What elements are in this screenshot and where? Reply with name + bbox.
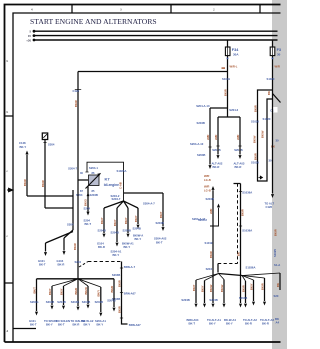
wire bus to fuse F35 (272, 40, 274, 47)
fan B diagonal to x196 (196, 274, 219, 281)
bus line 50 dot (33, 39, 36, 42)
svg-text:S204: S204 (84, 218, 91, 222)
svg-text:C126: C126 (266, 205, 273, 209)
wire horizontal y208 (45, 207, 73, 209)
svg-text:S1036A: S1036A (242, 190, 252, 194)
svg-text:30: 30 (276, 138, 280, 142)
svg-text:BK: BK (276, 283, 280, 287)
branch wire x64 (63, 238, 65, 251)
svg-text:S204-A-10: S204-A-10 (190, 142, 204, 146)
relay K7 body (89, 175, 100, 186)
fan B diagonal to page edge (242, 273, 280, 276)
fan diagonal 4 (124, 201, 139, 208)
svg-text:LG-B: LG-B (204, 178, 211, 182)
fan diagonal 2 (117, 201, 124, 208)
svg-text:S204-A1: S204-A1 (111, 249, 122, 253)
top border zone divider 3 (259, 5, 261, 14)
svg-text:BK/Y: BK/Y (249, 283, 253, 290)
svg-text:W/R: W/R (236, 135, 240, 140)
svg-text:BK/R: BK/R (74, 288, 78, 295)
svg-text:S204B: S204B (90, 193, 98, 197)
svg-text:BK-T: BK-T (85, 222, 92, 226)
wire main vertical x78 (77, 72, 79, 280)
svg-text:S204: S204 (48, 143, 55, 147)
svg-text:BK/Y: BK/Y (59, 288, 63, 295)
svg-text:BK: BK (236, 252, 240, 256)
svg-text:S204B: S204B (82, 300, 90, 304)
fan B diagonal to x245.5 (242, 276, 246, 282)
svg-text:BK/O: BK/O (83, 198, 87, 206)
svg-text:BK/W: BK/W (84, 287, 88, 295)
svg-text:TO SOLEN: TO SOLEN (56, 319, 70, 323)
svg-text:BK-Y: BK-Y (20, 145, 27, 149)
svg-text:START ENGINE AND ALTERNATORS: START ENGINE AND ALTERNATORS (30, 17, 157, 26)
bus line 15 (34, 35, 278, 37)
svg-text:S1020: S1020 (263, 117, 271, 121)
svg-text:BK/R: BK/R (73, 243, 77, 250)
bus A drop x36.5 (36, 279, 38, 311)
dashed wire horizontal (88, 261, 122, 263)
svg-text:BK/Y: BK/Y (124, 217, 128, 224)
svg-text:ALT-A02: ALT-A02 (212, 161, 223, 165)
bus line 15 dot (33, 34, 36, 37)
dashed wire x237.5 (237, 184, 239, 264)
bus line 50 (34, 39, 278, 41)
wire main horizontal y71.5 (78, 71, 228, 73)
svg-text:BK/R: BK/R (253, 153, 257, 160)
bus A drop x52 (51, 286, 53, 305)
wire bus to fuse F34 (227, 40, 229, 47)
svg-text:S204B: S204B (46, 300, 54, 304)
bus line 30 dot (33, 30, 36, 33)
margin entry arrow (7, 188, 13, 192)
svg-text:W/R: W/R (275, 65, 280, 69)
svg-text:BK-Y: BK-Y (226, 322, 233, 326)
fan A diagonal 2 (64, 279, 79, 286)
svg-text:S204G: S204G (30, 300, 39, 304)
svg-text:BK-W-A2: BK-W-A2 (82, 319, 94, 323)
left border zone divider 2 (5, 282, 14, 284)
arrow left drop (217, 146, 219, 155)
svg-text:BK-Y: BK-Y (84, 323, 91, 327)
svg-text:S204B: S204B (212, 148, 220, 152)
svg-text:S204B: S204B (206, 197, 214, 201)
svg-text:S204-A-7: S204-A-7 (143, 202, 155, 206)
splice node A to node B (219, 274, 243, 276)
svg-text:30A: 30A (233, 52, 239, 56)
svg-text:S204-7: S204-7 (68, 166, 77, 170)
branch wire x45b (45, 243, 47, 252)
fan B diagonal to x204.5 (205, 274, 219, 281)
splice bus A (37, 278, 115, 280)
svg-text:BK/T: BK/T (32, 287, 36, 294)
fan A diagonal 3 (78, 279, 88, 286)
svg-text:BK-T: BK-T (30, 323, 37, 327)
svg-text:BK/W-A1: BK/W-A1 (122, 241, 134, 245)
svg-text:F34: F34 (232, 48, 239, 52)
wire fuse F34 down (227, 56, 229, 117)
svg-text:BK/R: BK/R (117, 280, 121, 287)
svg-text:G101: G101 (38, 259, 45, 263)
svg-text:W/R: W/R (204, 174, 209, 178)
arrow x210 end (208, 165, 211, 169)
svg-text:BK-R: BK-R (58, 263, 65, 267)
inner drawing border (13, 13, 281, 342)
wire x240.5 to node B (240, 184, 242, 276)
svg-text:15: 15 (28, 34, 32, 38)
fan B diagonal to x224 (219, 274, 225, 280)
svg-text:S204B: S204B (197, 121, 205, 125)
svg-text:BK-Y: BK-Y (209, 322, 216, 326)
svg-text:BK/W: BK/W (209, 284, 213, 292)
svg-text:BK-R: BK-R (73, 323, 80, 327)
svg-text:S204: S204 (76, 193, 83, 197)
svg-text:BK/T: BK/T (159, 211, 163, 218)
bus A drop x78 (77, 279, 79, 306)
fan wire x117 (116, 208, 118, 242)
wire x121.5 down (122, 262, 128, 325)
svg-text:K7: K7 (105, 177, 111, 182)
svg-text:BK/Y: BK/Y (200, 285, 204, 292)
svg-text:BK/R: BK/R (260, 283, 264, 290)
svg-text:BK/R: BK/R (253, 105, 257, 112)
svg-text:BK/R: BK/R (41, 180, 45, 187)
svg-text:BK-T: BK-T (189, 322, 196, 326)
svg-text:30: 30 (277, 52, 281, 56)
top border zone divider 2 (170, 5, 172, 14)
svg-text:BK/R: BK/R (274, 229, 278, 236)
wire relay box top (87, 162, 124, 201)
svg-text:BK/Y: BK/Y (48, 288, 52, 295)
bus B drop x196 (195, 280, 197, 303)
branch diagonal to x64 (64, 230, 73, 238)
svg-text:+30: +30 (26, 38, 31, 42)
svg-text:BK/R: BK/R (240, 209, 244, 216)
svg-text:BK-Y: BK-Y (113, 253, 120, 257)
fan A diagonal 1 (52, 279, 78, 286)
bus A drop x114 (113, 279, 115, 307)
top border zone divider 1 (71, 5, 73, 14)
fan B diagonal to x264.5 (242, 276, 265, 279)
wire fuse F35 down (272, 56, 274, 194)
svg-text:A4: A4 (276, 321, 280, 325)
svg-text:S204-A-10: S204-A-10 (196, 104, 210, 108)
bus B drop x280 cut (279, 273, 281, 290)
bus A drop x88 (87, 286, 89, 304)
svg-text:S204-A02: S204-A02 (154, 237, 167, 241)
svg-text:S204: S204 (67, 223, 74, 227)
svg-text:S204B: S204B (95, 300, 103, 304)
svg-text:S204: S204 (84, 206, 91, 210)
svg-text:BK-T: BK-T (58, 323, 65, 327)
svg-text:C-AB: C-AB (118, 182, 122, 189)
node below fuse F35 (272, 58, 274, 60)
arrow up x27 (25, 151, 28, 155)
wire x163 down (162, 193, 164, 227)
arrow right drop (239, 146, 241, 155)
fan diagonal 3 (124, 201, 129, 208)
wire drop x240 (239, 117, 241, 146)
svg-text:BK/T: BK/T (192, 284, 196, 291)
fan wire x138 (137, 208, 139, 224)
svg-text:S204B: S204B (112, 273, 120, 277)
wire drop x218 (217, 117, 219, 146)
wire x218 to node A (217, 264, 219, 273)
arrow up L-wire (217, 204, 220, 208)
svg-text:S1036: S1036 (251, 120, 259, 124)
bus A drop x100.8 (100, 287, 102, 312)
svg-text:S1025: S1025 (273, 249, 277, 257)
svg-text:BK/Y: BK/Y (100, 217, 104, 224)
bus B drop x253.5 (253, 280, 255, 301)
bus B drop x224 (223, 280, 225, 304)
svg-text:S204B: S204B (181, 298, 189, 302)
svg-text:S204B: S204B (197, 153, 205, 157)
fuse F34 (225, 47, 230, 56)
svg-text:W/R: W/R (209, 209, 213, 214)
wire T header y117 (218, 116, 240, 118)
svg-text:BK/Y: BK/Y (134, 215, 138, 222)
svg-text:BK-R: BK-R (98, 245, 105, 249)
svg-text:S204B: S204B (156, 221, 164, 225)
svg-text:S204-2: S204-2 (198, 218, 207, 222)
wire junction horizontal at y108 (210, 107, 228, 109)
dashed corner to x218 (218, 263, 238, 265)
svg-text:BRN-A07: BRN-A07 (129, 323, 141, 327)
svg-text:S204B: S204B (209, 298, 217, 302)
svg-text:30: 30 (269, 158, 273, 162)
bundle header y183.5 (234, 183, 241, 185)
svg-text:G104: G104 (97, 241, 104, 245)
svg-text:S204B: S204B (111, 231, 119, 235)
diagonal branch to page edge (273, 94, 281, 103)
svg-text:BK/Y: BK/Y (113, 219, 117, 226)
svg-text:F3: F3 (277, 48, 281, 52)
arrow up on coil wire (87, 193, 90, 197)
relay K7 switch blade (86, 173, 101, 188)
svg-text:BK/R: BK/R (241, 285, 245, 292)
arrow up x213 (211, 186, 214, 190)
svg-text:ALT-A03: ALT-A03 (234, 161, 245, 165)
fan wire x128 (127, 208, 129, 233)
svg-text:S204B: S204B (107, 298, 115, 302)
svg-text:TO ALT-A3: TO ALT-A3 (260, 318, 274, 322)
svg-text:BK/R: BK/R (23, 179, 27, 186)
svg-text:TO ALT: TO ALT (265, 201, 275, 205)
svg-text:BRN-A-7: BRN-A-7 (124, 265, 136, 269)
svg-text:BK-R: BK-R (213, 165, 220, 169)
svg-text:G104: G104 (57, 259, 64, 263)
svg-text:BK-Y: BK-Y (135, 237, 142, 241)
svg-text:S204: S204 (206, 267, 213, 271)
svg-text:S1036A: S1036A (246, 265, 256, 269)
svg-text:W/R-L: W/R-L (230, 65, 238, 69)
svg-text:S1020: S1020 (267, 77, 275, 81)
svg-text:S204-2: S204-2 (229, 108, 238, 112)
svg-text:S204: S204 (75, 260, 82, 264)
svg-text:S204B: S204B (239, 296, 247, 300)
L-wire (210, 208, 219, 226)
svg-text:BK/W-A: BK/W-A (133, 233, 143, 237)
svg-text:BK/R: BK/R (117, 306, 121, 313)
svg-text:BK-R: BK-R (245, 322, 252, 326)
wire relay box right out (124, 192, 163, 194)
svg-text:S1025A: S1025A (117, 169, 127, 173)
svg-text:S1036A: S1036A (242, 228, 252, 232)
svg-text:BRN-A04: BRN-A04 (187, 318, 199, 322)
junction mark at corner (222, 67, 226, 69)
bus line 30 (34, 30, 278, 32)
wire x210 down (209, 108, 211, 165)
connector mark C126 (75, 89, 81, 91)
svg-text:BK/W: BK/W (252, 135, 256, 143)
left border zone divider 1 (5, 115, 14, 117)
bus B drop x204.5 (204, 281, 206, 304)
svg-text:S204-1: S204-1 (89, 166, 98, 170)
svg-text:BK-R: BK-R (235, 165, 242, 169)
svg-text:BK/R: BK/R (110, 286, 114, 293)
dashed wire diagonal (79, 262, 88, 268)
svg-text:BK/W: BK/W (220, 284, 224, 292)
relay pin stub (78, 179, 88, 181)
arrow main right end (271, 194, 274, 198)
svg-text:S1036: S1036 (251, 160, 259, 164)
svg-text:Idl-engine: Idl-engine (104, 183, 119, 187)
svg-text:S204B: S204B (98, 229, 106, 233)
svg-text:BK-T: BK-T (156, 240, 163, 244)
U loop arrow (259, 176, 263, 179)
svg-text:C148: C148 (19, 141, 26, 145)
svg-text:BK/W: BK/W (260, 130, 264, 138)
wire x73 (72, 190, 74, 230)
svg-text:S204-A1: S204-A1 (95, 319, 106, 323)
svg-text:BK/R: BK/R (209, 251, 213, 258)
svg-text:S204B: S204B (234, 148, 242, 152)
svg-text:S204B: S204B (133, 227, 141, 231)
bus B drop x213 continue (212, 272, 214, 304)
wire x27 (26, 155, 28, 196)
fan A diagonal 4 (78, 279, 101, 287)
svg-text:BK/Y: BK/Y (97, 290, 101, 297)
svg-text:BK-R: BK-R (262, 322, 269, 326)
svg-text:BK-Y: BK-Y (46, 323, 53, 327)
inline connector box (42, 133, 47, 140)
wire horizontal y196 (27, 195, 73, 197)
relay coil bottom wire (87, 186, 89, 212)
svg-text:S1-A: S1-A (274, 263, 280, 267)
svg-text:TO ALT-A1: TO ALT-A1 (207, 318, 221, 322)
svg-text:BK/R: BK/R (74, 100, 78, 107)
svg-text:BK: BK (275, 317, 279, 321)
svg-text:BK/R: BK/R (224, 89, 228, 96)
svg-text:TO ALT-A2: TO ALT-A2 (243, 318, 257, 322)
node below fuse F34 (227, 58, 229, 60)
branch diagonal to x45b (46, 232, 74, 244)
bus A drop x63.5 (63, 286, 65, 305)
fan B diagonal to x253.5 (242, 276, 254, 281)
svg-text:S204-7: S204-7 (112, 197, 121, 201)
wire x45 (44, 140, 46, 209)
svg-text:BK: BK (267, 91, 271, 95)
wire U loop left leg (258, 90, 273, 181)
arrow x163 (161, 227, 164, 231)
svg-text:C126: C126 (73, 89, 80, 93)
wire x213 down to bus (212, 190, 214, 271)
margin stub wire bottom left (13, 328, 36, 330)
bus B drop x264.5 (264, 278, 266, 301)
fan wire x104 (103, 208, 105, 233)
svg-text:BK-W-A4: BK-W-A4 (224, 318, 236, 322)
svg-text:S204B: S204B (71, 300, 79, 304)
svg-text:G101: G101 (29, 319, 36, 323)
scan background gray band (272, 0, 287, 349)
svg-text:BK-Y: BK-Y (97, 323, 104, 327)
bus B drop x245.5 (245, 281, 247, 303)
bus B drop x240.5 (240, 276, 242, 304)
svg-text:BRN-A07: BRN-A07 (124, 292, 136, 296)
svg-text:S204B: S204B (57, 300, 65, 304)
svg-text:W/R: W/R (214, 135, 218, 140)
svg-text:S1019: S1019 (222, 77, 230, 81)
arrow x88 (86, 212, 89, 216)
white connector label box (270, 107, 278, 113)
svg-text:BK-Y: BK-Y (124, 245, 131, 249)
fan diagonal 1 (104, 201, 124, 208)
svg-text:W/R: W/R (206, 135, 210, 140)
svg-text:W/R: W/R (204, 185, 209, 189)
svg-text:BK-T: BK-T (39, 263, 46, 267)
svg-text:S20: S20 (274, 294, 279, 298)
svg-text:S204B: S204B (123, 229, 131, 233)
svg-text:LG-B: LG-B (204, 189, 211, 193)
fuse F35 (270, 47, 275, 56)
svg-text:S1019: S1019 (205, 241, 213, 245)
